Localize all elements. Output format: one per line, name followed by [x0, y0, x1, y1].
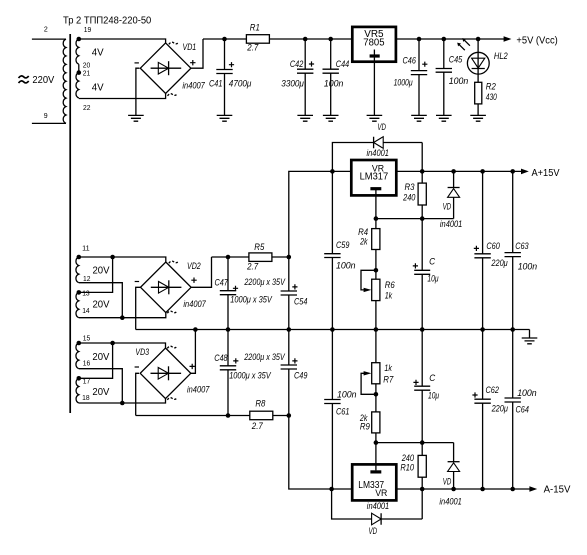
- svg-text:100n: 100n: [336, 261, 356, 271]
- svg-text:C63: C63: [515, 241, 529, 251]
- svg-text:A-15V: A-15V: [544, 484, 571, 495]
- svg-text:2.7: 2.7: [246, 261, 259, 271]
- svg-text:C41: C41: [209, 79, 222, 89]
- svg-text:16: 16: [83, 360, 91, 367]
- svg-text:R4: R4: [358, 227, 368, 237]
- svg-text:C54: C54: [294, 297, 307, 307]
- svg-text:1000μ x 35V: 1000μ x 35V: [229, 371, 271, 381]
- svg-text:220μ: 220μ: [491, 258, 508, 268]
- svg-text:100n: 100n: [449, 76, 469, 86]
- svg-text:2k: 2k: [359, 236, 368, 246]
- svg-text:100n: 100n: [517, 388, 537, 398]
- svg-text:VD: VD: [443, 202, 452, 212]
- svg-text:100n: 100n: [518, 262, 538, 272]
- svg-text:14: 14: [82, 308, 90, 315]
- svg-text:2200μ x 35V: 2200μ x 35V: [243, 352, 285, 362]
- svg-text:1k: 1k: [385, 291, 393, 301]
- svg-text:VD: VD: [369, 526, 378, 536]
- svg-text:VD: VD: [377, 122, 386, 132]
- svg-text:R9: R9: [360, 421, 370, 431]
- svg-text:R10: R10: [400, 462, 414, 472]
- svg-text:C64: C64: [516, 405, 529, 415]
- svg-text:20V: 20V: [93, 300, 110, 311]
- svg-text:220μ: 220μ: [491, 403, 508, 413]
- svg-text:17: 17: [83, 378, 91, 385]
- svg-text:2.7: 2.7: [246, 43, 259, 53]
- svg-text:C61: C61: [336, 407, 349, 417]
- svg-text:20: 20: [83, 63, 91, 70]
- svg-text:C42: C42: [290, 59, 303, 69]
- svg-text:1000μ x 35V: 1000μ x 35V: [230, 295, 272, 305]
- svg-text:20V: 20V: [92, 387, 109, 398]
- svg-text:in4007: in4007: [183, 299, 206, 309]
- svg-text:LM317: LM317: [360, 171, 389, 182]
- svg-text:C44: C44: [336, 59, 349, 69]
- svg-text:22: 22: [83, 105, 91, 112]
- svg-text:13: 13: [82, 290, 90, 297]
- svg-text:12: 12: [83, 276, 91, 283]
- svg-text:2.7: 2.7: [251, 421, 264, 431]
- svg-text:10μ: 10μ: [428, 391, 439, 401]
- svg-text:VD2: VD2: [187, 261, 201, 271]
- svg-text:100n: 100n: [324, 79, 344, 89]
- svg-text:240: 240: [401, 453, 415, 463]
- svg-text:VD: VD: [443, 476, 452, 486]
- svg-text:1k: 1k: [384, 363, 392, 373]
- svg-text:R3: R3: [405, 182, 416, 192]
- svg-text:R8: R8: [255, 399, 266, 409]
- svg-text:100n: 100n: [337, 389, 357, 399]
- svg-text:C48: C48: [214, 353, 228, 363]
- svg-text:in4007: in4007: [187, 384, 210, 394]
- svg-text:19: 19: [84, 27, 92, 34]
- svg-text:C46: C46: [403, 56, 417, 66]
- svg-text:7805: 7805: [363, 38, 385, 49]
- svg-text:in4001: in4001: [440, 219, 462, 229]
- svg-text:R7: R7: [383, 375, 394, 385]
- svg-text:9: 9: [44, 113, 48, 120]
- svg-text:3300μ: 3300μ: [281, 79, 304, 89]
- svg-text:20V: 20V: [93, 265, 110, 276]
- svg-text:220V: 220V: [32, 75, 54, 86]
- svg-text:21: 21: [83, 71, 91, 78]
- svg-text:1000μ: 1000μ: [394, 78, 413, 88]
- svg-text:in4001: in4001: [367, 501, 389, 511]
- svg-text:18: 18: [82, 395, 90, 402]
- svg-text:in4001: in4001: [367, 148, 389, 158]
- svg-text:C60: C60: [486, 241, 500, 251]
- svg-text:in4007: in4007: [182, 81, 205, 91]
- svg-text:VD3: VD3: [135, 347, 149, 357]
- svg-text:in4001: in4001: [439, 496, 461, 506]
- svg-text:Тр 2 ТПП248-220-50: Тр 2 ТПП248-220-50: [63, 16, 152, 27]
- svg-text:VR: VR: [375, 488, 387, 499]
- svg-text:4V: 4V: [92, 48, 104, 59]
- svg-text:4V: 4V: [92, 82, 104, 93]
- svg-text:A+15V: A+15V: [532, 168, 560, 179]
- svg-text:R1: R1: [250, 23, 260, 33]
- svg-text:C62: C62: [486, 385, 499, 395]
- svg-text:15: 15: [83, 335, 91, 342]
- svg-text:C: C: [429, 256, 435, 266]
- svg-text:20V: 20V: [92, 352, 109, 363]
- svg-text:C47: C47: [215, 277, 229, 287]
- svg-text:R2: R2: [486, 82, 496, 92]
- svg-text:10μ: 10μ: [427, 274, 438, 284]
- svg-text:R6: R6: [385, 280, 396, 290]
- svg-text:C59: C59: [336, 240, 349, 250]
- svg-text:C45: C45: [449, 55, 463, 65]
- svg-text:430: 430: [486, 92, 498, 102]
- svg-text:240: 240: [402, 193, 416, 203]
- svg-text:C: C: [429, 373, 435, 383]
- svg-text:R5: R5: [254, 242, 265, 252]
- svg-text:4700μ: 4700μ: [229, 79, 252, 89]
- svg-text:+5V (Vcc): +5V (Vcc): [516, 35, 557, 46]
- svg-text:VD1: VD1: [183, 42, 197, 52]
- svg-text:C49: C49: [294, 371, 307, 381]
- svg-text:11: 11: [82, 246, 90, 253]
- svg-text:2200μ x 35V: 2200μ x 35V: [244, 277, 286, 287]
- svg-text:2: 2: [44, 27, 48, 34]
- svg-text:HL2: HL2: [494, 51, 508, 61]
